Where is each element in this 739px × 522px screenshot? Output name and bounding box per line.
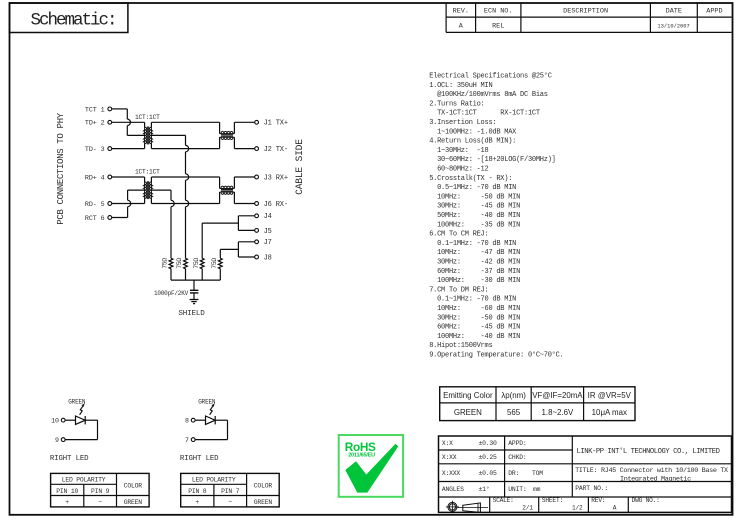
svg-text:30MHz: -42 dB MIN: 30MHz: -42 dB MIN xyxy=(429,259,520,267)
projection symbol cone xyxy=(458,503,489,513)
svg-text:8: 8 xyxy=(185,418,189,425)
pin TD+ 2 xyxy=(85,120,112,128)
emitting color table xyxy=(440,387,635,421)
svg-text:RoHS: RoHS xyxy=(345,440,376,454)
svg-text:APPD:: APPD: xyxy=(508,440,526,447)
wire T1 secondary center tap to vertical V2 xyxy=(151,134,185,136)
svg-text:J1 TX+: J1 TX+ xyxy=(264,120,288,128)
svg-text:Electrical Specifications @25°: Electrical Specifications @25°C xyxy=(429,72,552,81)
svg-text:Integrated Magnetic: Integrated Magnetic xyxy=(620,476,691,484)
wire anode to diode xyxy=(195,419,205,421)
svg-text:1/2: 1/2 xyxy=(572,504,583,511)
revision table xyxy=(446,2,731,32)
title block xyxy=(439,436,732,512)
svg-text:J2 TX-: J2 TX- xyxy=(264,146,288,154)
svg-text:IR @VR=5V: IR @VR=5V xyxy=(588,391,632,400)
svg-text:@100KHz/100mVrms 8mA DC Bias: @100KHz/100mVrms 8mA DC Bias xyxy=(429,91,548,99)
pin J6 RX- xyxy=(255,201,288,209)
svg-text:X:XXX: X:XXX xyxy=(442,470,461,477)
svg-text:1~30MHz: -18: 1~30MHz: -18 xyxy=(429,147,488,155)
svg-text:RIGHT LED: RIGHT LED xyxy=(50,455,89,463)
svg-text:2/1: 2/1 xyxy=(522,504,533,511)
svg-text:30MHz: -45 dB MIN: 30MHz: -45 dB MIN xyxy=(429,203,520,211)
wire RD- to T2 primary bottom xyxy=(112,203,145,205)
svg-text:TD+ 2: TD+ 2 xyxy=(85,120,105,128)
common-mode choke CH1 xyxy=(220,122,235,148)
svg-text:J8: J8 xyxy=(264,254,272,262)
svg-text:LINK-PP INT'L TECHNOLOGY CO.,: LINK-PP INT'L TECHNOLOGY CO., LIMITED xyxy=(577,448,720,456)
svg-text:50MHz: -40 dB MIN: 50MHz: -40 dB MIN xyxy=(429,212,520,220)
svg-text:7: 7 xyxy=(185,437,189,444)
svg-text:9.Operating Temperature: 0°C~7: 9.Operating Temperature: 0°C~70°C. xyxy=(429,351,563,360)
resistor R3 75ohm xyxy=(200,258,204,269)
svg-text:8.Hipot:1500Vrms: 8.Hipot:1500Vrms xyxy=(429,342,492,350)
svg-text:TX-1CT:1CT RX-1CT:1CT: TX-1CT:1CT RX-1CT:1CT xyxy=(429,110,540,118)
transformer T1 1CT:1CT xyxy=(143,122,153,148)
title block approval texts xyxy=(508,440,543,493)
svg-text:DWG NO.:: DWG NO.: xyxy=(632,497,660,504)
svg-text:+: + xyxy=(65,499,69,506)
wire cathode to pin xyxy=(85,419,97,421)
pin J8 xyxy=(255,254,272,262)
title block tolerance texts xyxy=(442,440,497,493)
LED polarity table pins 8/7 xyxy=(181,473,280,507)
svg-text:10MHz: -60 dB MIN: 10MHz: -60 dB MIN xyxy=(429,305,520,313)
svg-text:4.Return Loss(dB MIN):: 4.Return Loss(dB MIN): xyxy=(429,138,516,146)
wire J4-J5 junction to resistor R3 xyxy=(202,216,254,258)
svg-text:1000pF/2KV: 1000pF/2KV xyxy=(154,290,189,297)
pin J3 RX+ xyxy=(255,174,288,182)
svg-text:J7: J7 xyxy=(264,239,272,247)
svg-text:SHEET:: SHEET: xyxy=(542,497,563,504)
svg-text:75Ω: 75Ω xyxy=(162,258,169,269)
svg-text:1CT:1CT: 1CT:1CT xyxy=(135,114,160,121)
wire J7-J8 junction to resistor R4 xyxy=(220,242,254,258)
svg-text:75Ω: 75Ω xyxy=(211,258,218,269)
svg-text:±0.05: ±0.05 xyxy=(479,470,498,477)
projection symbol target xyxy=(446,501,459,514)
vertical wire V1 from T2 center tap to resistor R1 with hop over J6 line xyxy=(171,190,174,258)
svg-text:100MHz: -40 dB MIN: 100MHz: -40 dB MIN xyxy=(429,333,520,341)
svg-text:75Ω: 75Ω xyxy=(176,258,183,269)
svg-text:10MHz: -50 dB MIN: 10MHz: -50 dB MIN xyxy=(429,193,520,201)
wire rail to capacitor C1 xyxy=(193,280,195,290)
pin TD- 3 xyxy=(85,146,112,154)
common-mode choke CH2 xyxy=(220,177,235,204)
svg-text:0.1~1MHz: -70 dB MIN: 0.1~1MHz: -70 dB MIN xyxy=(429,296,516,304)
LED circuit pins 10/9 xyxy=(50,398,98,463)
svg-text:SHIELD: SHIELD xyxy=(178,310,205,318)
LED diode D10 xyxy=(76,416,86,424)
svg-text:±0.25: ±0.25 xyxy=(479,454,498,461)
svg-text:PCB CONNECTIONS TO PHY: PCB CONNECTIONS TO PHY xyxy=(55,112,66,224)
vertical wire V2 from T1 center tap to resistor R2 with hops xyxy=(186,135,189,258)
svg-text:λp(nm): λp(nm) xyxy=(501,391,526,400)
wires resistors to common rail xyxy=(171,269,220,280)
svg-text:6.CM To CM REJ:: 6.CM To CM REJ: xyxy=(429,231,488,239)
svg-text:mm: mm xyxy=(533,486,541,493)
emission arrow xyxy=(210,406,213,415)
svg-text:±1°: ±1° xyxy=(479,485,490,493)
wire T1 secondary top to choke CH1 xyxy=(151,121,219,123)
svg-text:PIN 7: PIN 7 xyxy=(221,488,240,495)
svg-text:J3 RX+: J3 RX+ xyxy=(264,174,288,182)
svg-text:GREEN: GREEN xyxy=(124,499,143,506)
wire choke CH2 to J3 xyxy=(234,176,254,178)
pin J5 xyxy=(255,228,272,236)
svg-text:PIN 10: PIN 10 xyxy=(56,488,78,495)
svg-text:TOM: TOM xyxy=(532,470,543,477)
svg-text:REV.: REV. xyxy=(453,7,469,15)
svg-text:TCT 1: TCT 1 xyxy=(85,106,105,114)
svg-text:Schematic:: Schematic: xyxy=(31,10,116,30)
svg-text:Emitting Color: Emitting Color xyxy=(443,391,493,400)
svg-text:30~60MHz: -[18+20LOG(F/30MHz)]: 30~60MHz: -[18+20LOG(F/30MHz)] xyxy=(429,156,555,164)
wire choke CH1 to J1 xyxy=(234,121,254,123)
svg-text:GREEN: GREEN xyxy=(254,499,273,506)
svg-text:VF@IF=20mA: VF@IF=20mA xyxy=(532,391,583,400)
wire RCT to T2 primary center tap with hop xyxy=(112,190,145,217)
title text RJ45 Connector xyxy=(575,467,728,484)
svg-text:100MHz: -35 dB MIN: 100MHz: -35 dB MIN xyxy=(429,221,520,229)
svg-text:0.5~1MHz: -70 dB MIN: 0.5~1MHz: -70 dB MIN xyxy=(429,184,516,192)
wire TCT to T1 primary center tap with hop xyxy=(112,109,145,135)
wire cathode to pin xyxy=(215,419,227,421)
svg-text:1.8~2.6V: 1.8~2.6V xyxy=(541,408,574,417)
svg-text:REL: REL xyxy=(492,22,504,30)
scale sheet rev dwg texts xyxy=(493,497,660,512)
pin RD+ 4 xyxy=(85,174,112,182)
svg-text:J6 RX-: J6 RX- xyxy=(264,201,288,209)
svg-text:RD- 5: RD- 5 xyxy=(85,201,105,209)
title box Schematic xyxy=(10,3,128,33)
svg-text:60~80MHz: -12: 60~80MHz: -12 xyxy=(429,166,488,174)
svg-text:7.CM To DM REJ:: 7.CM To DM REJ: xyxy=(429,286,488,294)
svg-text:DATE: DATE xyxy=(666,7,682,15)
svg-text:±0.30: ±0.30 xyxy=(479,440,498,447)
svg-text:PART NO.:: PART NO.: xyxy=(575,485,608,492)
svg-text:1.OCL: 350uH MIN: 1.OCL: 350uH MIN xyxy=(429,82,492,90)
resistor R2 75ohm xyxy=(184,258,188,269)
svg-text:ECN NO.: ECN NO. xyxy=(484,7,513,15)
svg-text:ANGLES: ANGLES xyxy=(442,486,464,493)
svg-text:10: 10 xyxy=(51,418,59,425)
wire choke CH2 to J6 xyxy=(234,203,254,205)
wire T2 secondary top to choke CH2 xyxy=(151,176,219,178)
wire RD+ to T2 primary top xyxy=(112,176,145,178)
svg-text:CABLE SIDE: CABLE SIDE xyxy=(294,139,305,195)
svg-text:+: + xyxy=(195,499,199,506)
capacitor C1 1000pF/2KV xyxy=(190,290,198,293)
svg-text:2011/65/EU: 2011/65/EU xyxy=(348,453,375,459)
pin J7 xyxy=(255,239,272,247)
wire T2 secondary bottom to choke CH2 xyxy=(151,203,219,205)
pin TCT 1 xyxy=(85,106,112,114)
svg-text:60MHz: -45 dB MIN: 60MHz: -45 dB MIN xyxy=(429,324,520,332)
svg-text:A: A xyxy=(613,504,617,511)
svg-text:10MHz: -47 dB MIN: 10MHz: -47 dB MIN xyxy=(429,249,520,257)
svg-text:3.Insertion Loss:: 3.Insertion Loss: xyxy=(429,119,496,127)
svg-text:X:XX: X:XX xyxy=(442,454,457,461)
wire choke CH1 to J2 xyxy=(234,148,254,150)
svg-text:RCT 6: RCT 6 xyxy=(85,215,105,223)
pin J4 xyxy=(255,213,272,221)
svg-text:J4: J4 xyxy=(264,213,272,221)
svg-text:DESCRIPTION: DESCRIPTION xyxy=(563,7,608,15)
svg-text:−: − xyxy=(228,499,232,506)
LED diode D8 xyxy=(206,416,216,424)
pin RCT 6 xyxy=(85,215,112,223)
svg-text:2.Turns Ratio:: 2.Turns Ratio: xyxy=(429,100,484,108)
svg-text:APPD: APPD xyxy=(706,7,722,15)
svg-text:1~100MHz: -1.0dB MAX: 1~100MHz: -1.0dB MAX xyxy=(429,128,517,136)
resistor R1 75ohm xyxy=(169,258,173,269)
LED polarity table pins 10/9 xyxy=(51,473,150,507)
emission arrow xyxy=(80,406,83,415)
svg-text:1CT:1CT: 1CT:1CT xyxy=(135,169,160,176)
svg-text:LED POLARITY: LED POLARITY xyxy=(192,477,236,484)
svg-text:X:X: X:X xyxy=(442,440,453,447)
svg-text:PIN 8: PIN 8 xyxy=(188,488,207,495)
svg-text:GREEN: GREEN xyxy=(454,408,482,417)
svg-text:RD+ 4: RD+ 4 xyxy=(85,174,105,182)
resistor R4 75ohm xyxy=(218,258,222,269)
svg-text:75Ω: 75Ω xyxy=(193,258,200,269)
pin J1 TX+ xyxy=(255,120,288,128)
svg-text:PIN 9: PIN 9 xyxy=(91,488,110,495)
svg-text:5.Crosstalk(TX - RX):: 5.Crosstalk(TX - RX): xyxy=(429,175,512,183)
wire capacitor to ground xyxy=(193,293,195,300)
wire TD+ to T1 primary top xyxy=(112,121,145,123)
svg-text:TITLE:: TITLE: xyxy=(575,467,597,474)
svg-text:RIGHT LED: RIGHT LED xyxy=(180,455,219,463)
svg-text:565: 565 xyxy=(507,408,521,417)
svg-text:RJ45 Connector with 10/100 Bas: RJ45 Connector with 10/100 Base TX xyxy=(601,467,728,475)
svg-text:30MHz: -50 dB MIN: 30MHz: -50 dB MIN xyxy=(429,314,520,322)
svg-text:CHKD:: CHKD: xyxy=(508,454,526,461)
svg-text:SCALE:: SCALE: xyxy=(493,497,514,504)
wire T2 secondary center tap to vertical V1 xyxy=(151,189,171,191)
svg-text:13/10/2007: 13/10/2007 xyxy=(657,24,689,30)
transformer T2 1CT:1CT xyxy=(143,177,153,204)
svg-text:100MHz: -30 dB MIN: 100MHz: -30 dB MIN xyxy=(429,277,520,285)
svg-text:COLOR: COLOR xyxy=(254,483,273,490)
LED circuit pins 8/7 xyxy=(180,398,228,463)
electrical specifications text block xyxy=(429,72,563,360)
svg-text:0.1~1MHz: -70 dB MIN: 0.1~1MHz: -70 dB MIN xyxy=(429,240,516,248)
wire T1 secondary bottom to choke CH1 with hop at V2 xyxy=(151,148,219,150)
svg-text:UNIT:: UNIT: xyxy=(508,486,526,493)
svg-text:−: − xyxy=(98,499,102,506)
ground symbol SHIELD xyxy=(190,300,199,304)
wire anode to diode xyxy=(65,419,75,421)
svg-text:60MHz: -37 dB MIN: 60MHz: -37 dB MIN xyxy=(429,268,520,276)
svg-text:DR:: DR: xyxy=(508,470,519,477)
RoHS logo xyxy=(339,435,403,497)
pin J2 TX- xyxy=(255,146,288,154)
svg-text:TD- 3: TD- 3 xyxy=(85,146,105,154)
svg-text:10μA max: 10μA max xyxy=(592,408,627,417)
svg-text:J5: J5 xyxy=(264,228,272,236)
pin RD- 5 xyxy=(85,201,112,209)
wire TD- to T1 primary bottom xyxy=(112,148,145,150)
svg-text:COLOR: COLOR xyxy=(124,483,143,490)
svg-text:LED POLARITY: LED POLARITY xyxy=(62,477,106,484)
svg-text:REV:: REV: xyxy=(591,497,605,504)
svg-text:9: 9 xyxy=(55,437,59,444)
